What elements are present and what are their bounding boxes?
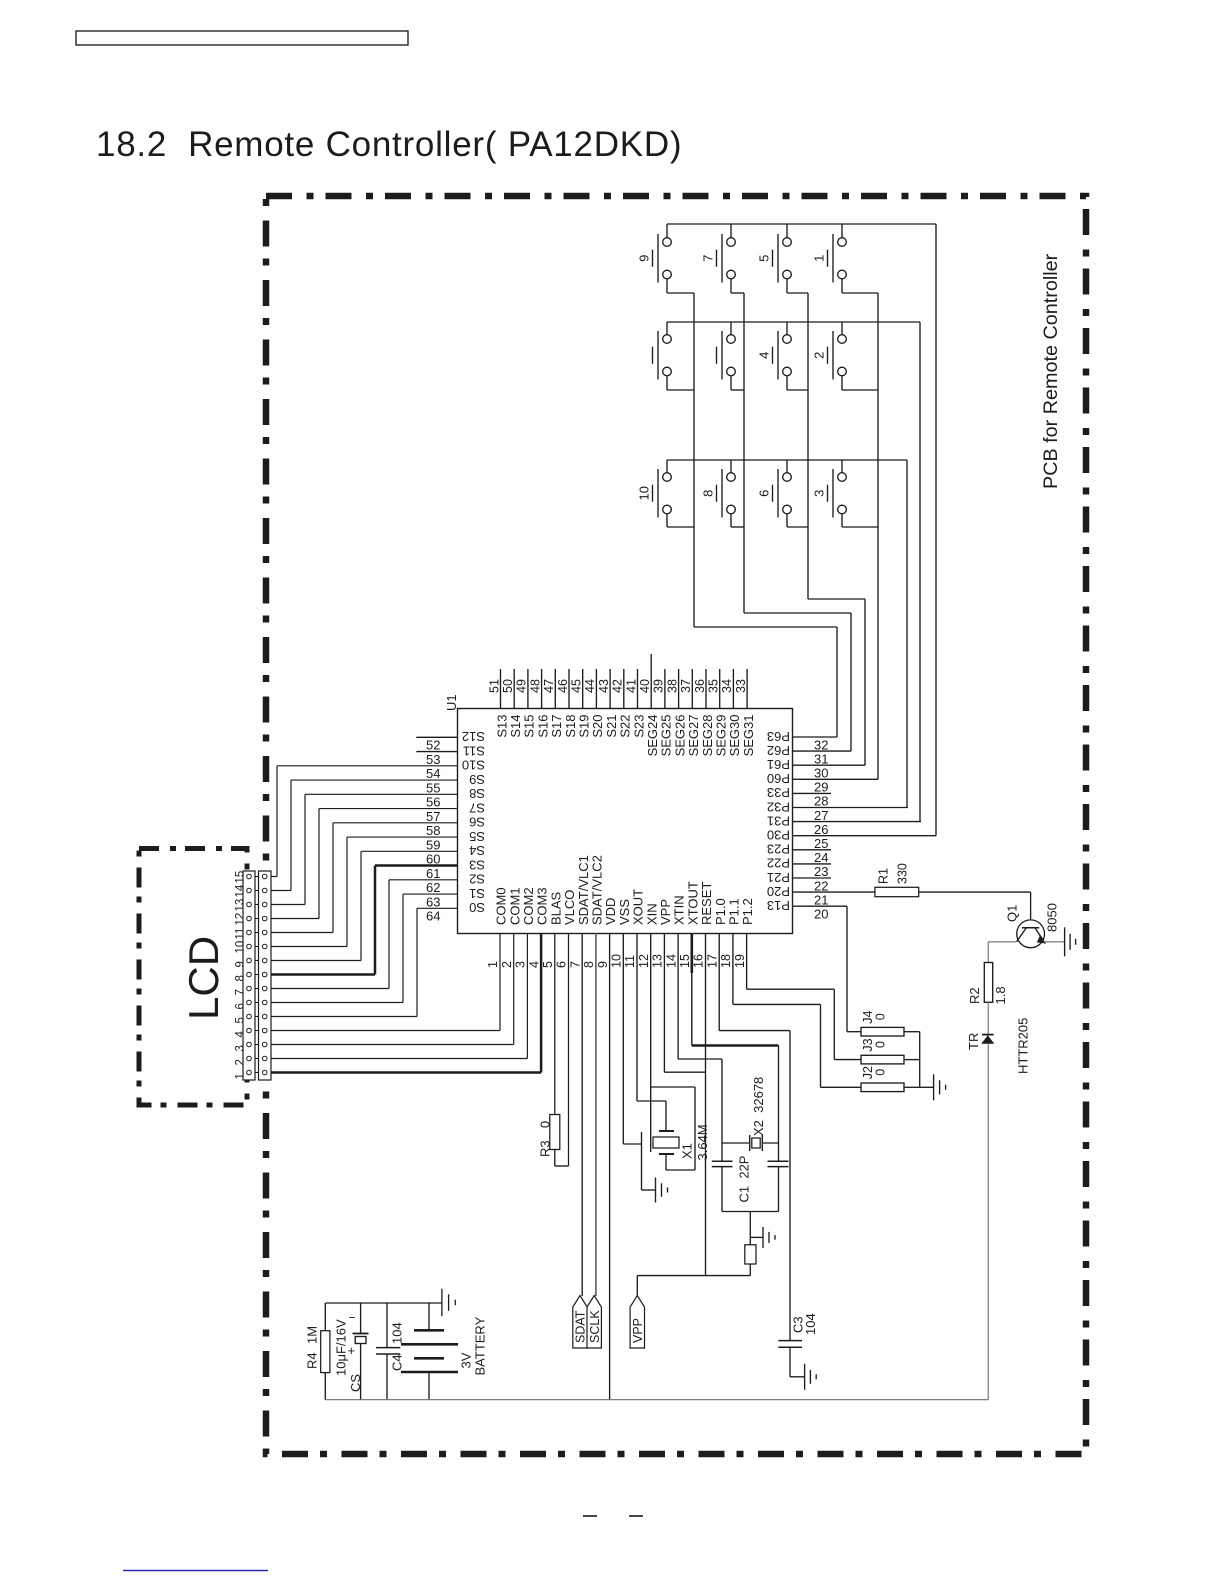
- svg-text:3: 3: [235, 1045, 247, 1051]
- svg-text:2: 2: [812, 352, 827, 359]
- svg-text:P22: P22: [767, 856, 790, 871]
- svg-text:9: 9: [637, 255, 652, 262]
- svg-text:8: 8: [235, 975, 247, 981]
- svg-text:34: 34: [720, 679, 734, 693]
- svg-text:32: 32: [814, 737, 828, 752]
- svg-text:P62: P62: [767, 743, 790, 758]
- svg-text:51: 51: [487, 679, 501, 693]
- svg-text:CS: CS: [348, 1374, 363, 1392]
- svg-text:45: 45: [570, 679, 584, 693]
- svg-text:39: 39: [652, 679, 666, 693]
- svg-text:S4: S4: [469, 843, 485, 858]
- svg-text:7: 7: [568, 961, 582, 968]
- svg-text:−: −: [349, 1311, 356, 1325]
- svg-text:62: 62: [426, 880, 440, 895]
- svg-text:10: 10: [637, 486, 652, 500]
- svg-text:15: 15: [678, 954, 692, 968]
- svg-text:LCD: LCD: [180, 936, 227, 1020]
- svg-text:TR: TR: [966, 1033, 981, 1050]
- svg-text:1: 1: [812, 255, 827, 262]
- svg-text:P30: P30: [767, 828, 790, 843]
- svg-text:P61: P61: [767, 757, 790, 772]
- svg-text:37: 37: [679, 679, 693, 693]
- svg-text:43: 43: [597, 679, 611, 693]
- svg-text:104: 104: [803, 1313, 818, 1335]
- svg-text:VPP: VPP: [631, 1318, 645, 1343]
- svg-text:+: +: [348, 1343, 356, 1358]
- svg-text:P32: P32: [767, 799, 790, 814]
- svg-text:25: 25: [814, 836, 828, 851]
- svg-text:64: 64: [426, 909, 440, 924]
- svg-text:14: 14: [235, 884, 247, 897]
- svg-text:8050: 8050: [1045, 903, 1060, 932]
- svg-text:58: 58: [426, 823, 440, 838]
- svg-text:P60: P60: [767, 771, 790, 786]
- svg-text:S6: S6: [469, 815, 485, 830]
- svg-text:S5: S5: [469, 829, 485, 844]
- svg-text:26: 26: [814, 822, 828, 837]
- svg-text:14: 14: [664, 954, 678, 968]
- svg-text:9: 9: [235, 961, 247, 967]
- svg-text:48: 48: [528, 679, 542, 693]
- svg-text:40: 40: [638, 679, 652, 693]
- svg-text:1: 1: [235, 1073, 247, 1079]
- svg-text:0: 0: [874, 1041, 888, 1048]
- svg-text:22: 22: [814, 878, 828, 893]
- svg-text:8: 8: [582, 961, 596, 968]
- svg-text:P63: P63: [767, 729, 790, 744]
- svg-text:13: 13: [235, 899, 247, 912]
- svg-text:104: 104: [390, 1322, 405, 1344]
- svg-text:29: 29: [814, 780, 828, 795]
- svg-text:S3: S3: [469, 857, 485, 872]
- svg-text:12: 12: [235, 913, 247, 926]
- svg-text:P21: P21: [767, 870, 790, 885]
- svg-text:7: 7: [235, 989, 247, 995]
- svg-text:2: 2: [235, 1059, 247, 1065]
- svg-text:9: 9: [596, 961, 610, 968]
- svg-text:Q1: Q1: [1005, 905, 1020, 922]
- svg-text:3: 3: [514, 961, 528, 968]
- svg-text:12: 12: [637, 954, 651, 968]
- svg-text:52: 52: [426, 738, 440, 753]
- svg-text:6: 6: [555, 961, 569, 968]
- svg-text:BATTERY: BATTERY: [473, 1316, 488, 1375]
- svg-text:21: 21: [814, 892, 828, 907]
- svg-text:4: 4: [527, 961, 541, 968]
- svg-text:SCLK: SCLK: [588, 1310, 602, 1343]
- svg-text:59: 59: [426, 837, 440, 852]
- svg-text:P13: P13: [767, 898, 790, 913]
- svg-text:42: 42: [611, 679, 625, 693]
- svg-text:C4: C4: [390, 1354, 405, 1371]
- svg-text:6: 6: [235, 1003, 247, 1009]
- svg-text:57: 57: [426, 809, 440, 824]
- svg-text:S11: S11: [463, 743, 485, 758]
- svg-text:X1: X1: [680, 1143, 695, 1159]
- svg-text:P20: P20: [767, 884, 790, 899]
- svg-text:PCB for Remote Controller: PCB for Remote Controller: [1040, 253, 1062, 489]
- svg-text:2: 2: [500, 961, 514, 968]
- svg-text:0: 0: [538, 1121, 553, 1128]
- svg-text:1.8: 1.8: [993, 986, 1008, 1004]
- svg-text:R2: R2: [967, 987, 982, 1004]
- svg-text:1: 1: [486, 961, 500, 968]
- svg-text:33: 33: [734, 679, 748, 693]
- svg-text:S12: S12: [462, 729, 485, 744]
- svg-text:5: 5: [235, 1017, 247, 1023]
- svg-text:330: 330: [896, 863, 910, 884]
- svg-text:S8: S8: [469, 786, 485, 801]
- svg-text:P1.2: P1.2: [740, 898, 755, 925]
- svg-text:53: 53: [426, 752, 440, 767]
- svg-text:46: 46: [556, 679, 570, 693]
- svg-text:19: 19: [733, 954, 747, 968]
- svg-text:16: 16: [692, 954, 706, 968]
- svg-text:63: 63: [426, 894, 440, 909]
- svg-text:5: 5: [757, 255, 772, 262]
- svg-text:10: 10: [235, 941, 247, 954]
- svg-text:3.64M: 3.64M: [695, 1124, 710, 1160]
- svg-text:0: 0: [874, 1069, 888, 1076]
- svg-text:44: 44: [583, 679, 597, 693]
- svg-text:54: 54: [426, 766, 440, 781]
- svg-text:HTTR205: HTTR205: [1016, 1018, 1031, 1074]
- svg-text:27: 27: [814, 808, 828, 823]
- svg-text:8: 8: [701, 490, 716, 497]
- svg-text:18.2 Remote Controller( PA12D: 18.2 Remote Controller( PA12DKD): [96, 125, 682, 164]
- svg-text:31: 31: [814, 751, 828, 766]
- svg-text:10μF/16V: 10μF/16V: [334, 1319, 349, 1376]
- svg-text:36: 36: [693, 679, 707, 693]
- svg-text:17: 17: [705, 954, 719, 968]
- svg-text:28: 28: [814, 794, 828, 809]
- svg-text:SEG31: SEG31: [741, 715, 756, 757]
- svg-text:X2 32678: X2 32678: [751, 1077, 766, 1136]
- svg-text:56: 56: [426, 795, 440, 810]
- svg-text:24: 24: [814, 850, 828, 865]
- svg-text:C1 22P: C1 22P: [737, 1156, 752, 1203]
- svg-text:S1: S1: [469, 886, 485, 901]
- svg-text:49: 49: [515, 679, 529, 693]
- svg-text:P33: P33: [767, 785, 790, 800]
- svg-text:U1: U1: [444, 694, 459, 711]
- svg-text:10: 10: [610, 954, 624, 968]
- svg-text:0: 0: [874, 1013, 888, 1020]
- svg-text:50: 50: [501, 679, 515, 693]
- svg-text:13: 13: [651, 954, 665, 968]
- svg-text:6: 6: [757, 490, 772, 497]
- svg-text:11: 11: [235, 928, 247, 940]
- svg-text:20: 20: [814, 907, 828, 922]
- svg-text:R3: R3: [538, 1140, 553, 1157]
- svg-text:4: 4: [757, 352, 772, 359]
- svg-text:S2: S2: [469, 872, 485, 887]
- svg-text:30: 30: [814, 766, 828, 781]
- svg-text:15: 15: [235, 871, 247, 884]
- svg-text:R1: R1: [877, 868, 891, 884]
- svg-text:3V: 3V: [459, 1352, 474, 1368]
- svg-text:S7: S7: [469, 800, 485, 815]
- svg-text:18: 18: [719, 954, 733, 968]
- svg-text:61: 61: [426, 866, 440, 881]
- svg-text:55: 55: [426, 780, 440, 795]
- svg-text:R4: R4: [305, 1352, 320, 1369]
- svg-text:S9: S9: [469, 772, 485, 787]
- svg-text:5: 5: [541, 961, 555, 968]
- svg-text:S0: S0: [469, 900, 485, 915]
- svg-text:4: 4: [235, 1031, 247, 1038]
- svg-text:P31: P31: [767, 813, 790, 828]
- svg-text:35: 35: [707, 679, 721, 693]
- svg-text:41: 41: [624, 679, 638, 693]
- svg-text:P23: P23: [767, 842, 790, 857]
- svg-text:1M: 1M: [305, 1326, 320, 1344]
- svg-text:38: 38: [665, 679, 679, 693]
- svg-text:23: 23: [814, 864, 828, 879]
- svg-text:11: 11: [623, 955, 637, 968]
- svg-text:SDAT: SDAT: [574, 1310, 588, 1343]
- svg-text:47: 47: [542, 679, 556, 693]
- svg-text:3: 3: [812, 490, 827, 497]
- svg-text:7: 7: [701, 255, 716, 262]
- svg-text:S10: S10: [462, 758, 485, 773]
